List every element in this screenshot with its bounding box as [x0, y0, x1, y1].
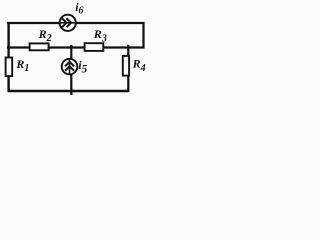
wire left rail [7, 22, 9, 92]
resistor R3 [85, 43, 104, 51]
resistor R4 [123, 56, 129, 76]
node junction middle branch top [70, 46, 73, 49]
wire right top segment [142, 22, 144, 48]
node junction second rail left [7, 46, 10, 49]
wire second rail [8, 46, 145, 48]
resistor R2 [30, 43, 49, 50]
wire bottom rail [8, 90, 130, 92]
wire top rail [7, 22, 145, 24]
wire R4 branch [127, 45, 129, 92]
current source i5 [62, 59, 78, 75]
current source i6 [60, 15, 76, 31]
resistor R1 [6, 58, 13, 77]
wire middle branch [70, 45, 72, 95]
node junction middle branch bottom [70, 89, 73, 92]
